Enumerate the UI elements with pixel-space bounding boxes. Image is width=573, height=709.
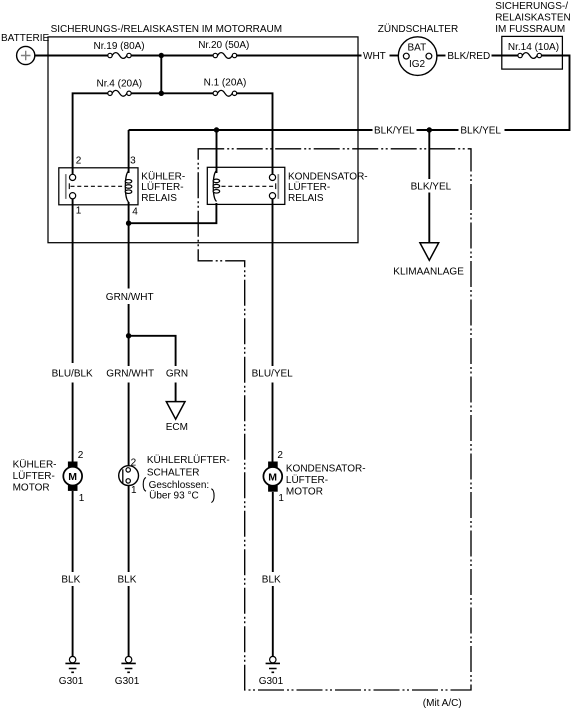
actuator dashed link <box>222 185 275 187</box>
svg-text:1: 1 <box>79 493 85 504</box>
svg-text:2: 2 <box>76 156 82 167</box>
wire motor M2 to ground <box>272 492 274 656</box>
svg-text:G301: G301 <box>259 676 284 687</box>
wire coil lead radiator relay <box>128 130 130 173</box>
svg-text:BLK/RED: BLK/RED <box>447 51 490 62</box>
svg-text:1: 1 <box>131 485 137 496</box>
contact armature <box>65 174 67 199</box>
svg-text:BLK/YEL: BLK/YEL <box>374 126 415 137</box>
svg-text:BLK/YEL: BLK/YEL <box>460 126 501 137</box>
svg-text:G301: G301 <box>115 676 140 687</box>
wire BLK/YEL branch down to KLIMAANLAGE <box>428 130 430 242</box>
svg-text:2: 2 <box>78 450 84 461</box>
svg-text:MOTOR: MOTOR <box>13 483 50 494</box>
coil L2 <box>213 171 216 202</box>
svg-text:LÜFTER-: LÜFTER- <box>141 181 183 193</box>
svg-text:Nr.20 (50A): Nr.20 (50A) <box>198 40 249 51</box>
wire coil lead condenser relay <box>216 130 218 173</box>
svg-text:BLK: BLK <box>262 574 281 585</box>
radiator fan switch KUEHLERLUEFTER-SCHALTER <box>119 454 230 502</box>
svg-text:M: M <box>268 471 277 483</box>
contact terminals <box>269 174 275 180</box>
wire motor M1 to ground <box>72 491 74 656</box>
wire fuse Nr.19 to fuse Nr.20 <box>131 55 213 57</box>
svg-text:Über 93 °C: Über 93 °C <box>149 490 199 502</box>
svg-text:LÜFTER-: LÜFTER- <box>286 474 328 486</box>
A/C option dash-dot outline <box>198 149 471 690</box>
svg-text:IG2: IG2 <box>409 59 426 70</box>
svg-text:(Mit A/C): (Mit A/C) <box>423 698 462 709</box>
fuse Nr.4 (20A) <box>97 79 143 97</box>
svg-text:Geschlossen:: Geschlossen: <box>149 480 210 491</box>
svg-text:BATTERIE: BATTERIE <box>1 33 49 44</box>
svg-text:IM FUSSRAUM: IM FUSSRAUM <box>495 24 565 35</box>
bracket left <box>143 478 146 492</box>
svg-text:GRN: GRN <box>166 369 188 380</box>
battery B1 <box>1 33 49 65</box>
wire relay1 pin4 down <box>128 202 130 223</box>
ground G301 left <box>59 656 84 687</box>
relay radiator fan KUEHLER-LUEFTER-RELAIS <box>59 156 185 218</box>
svg-text:BLU/YEL: BLU/YEL <box>252 369 294 380</box>
node junction bus bottom <box>159 91 164 96</box>
svg-text:2: 2 <box>277 450 283 461</box>
svg-text:BLK/YEL: BLK/YEL <box>411 181 452 192</box>
wire right drop to BLK/YEL row <box>505 129 571 131</box>
ignition switch ZUENDSCHALTER <box>378 23 458 76</box>
wire BLK/YEL row to relay coil <box>129 129 373 131</box>
node junction bus top <box>159 53 164 58</box>
svg-text:SICHERUNGS-/RELAISKASTEN IM MO: SICHERUNGS-/RELAISKASTEN IM MOTORRAUM <box>51 24 283 35</box>
svg-text:BLU/BLK: BLU/BLK <box>52 369 93 380</box>
fuse/relay box engine room outline <box>48 37 358 243</box>
svg-text:Nr.14 (10A): Nr.14 (10A) <box>508 42 559 53</box>
contact armature <box>277 174 279 199</box>
ground G301 right <box>259 656 284 687</box>
svg-text:ECM: ECM <box>166 422 188 433</box>
wire GRN/WHT down to switch <box>128 223 130 467</box>
wire bus vertical Nr.19 line to Nr.4 line <box>160 56 162 94</box>
node junction GRN branch <box>126 333 131 338</box>
svg-text:LÜFTER-: LÜFTER- <box>288 181 330 193</box>
svg-text:SICHERUNGS-/: SICHERUNGS-/ <box>495 1 568 12</box>
svg-text:LÜFTER-: LÜFTER- <box>13 470 55 482</box>
svg-text:G301: G301 <box>59 676 84 687</box>
node junction pin4 <box>126 221 131 226</box>
wire pin4 to condenser coil <box>129 203 217 223</box>
svg-text:Nr.19 (80A): Nr.19 (80A) <box>94 41 145 52</box>
svg-text:RELAISKASTEN: RELAISKASTEN <box>495 13 571 24</box>
wire BLK/RED to fuse box <box>492 55 519 57</box>
svg-text:Nr.4 (20A): Nr.4 (20A) <box>97 79 143 90</box>
svg-text:MOTOR: MOTOR <box>286 487 323 498</box>
svg-text:BLK: BLK <box>61 575 80 586</box>
wire BLK/YEL segment to junction <box>417 129 459 131</box>
svg-text:BAT: BAT <box>408 42 427 53</box>
bracket right <box>211 489 214 503</box>
svg-text:GRN/WHT: GRN/WHT <box>106 292 154 303</box>
svg-text:RELAIS: RELAIS <box>288 193 324 204</box>
svg-text:KLIMAANLAGE: KLIMAANLAGE <box>393 267 464 278</box>
ground G301 middle <box>115 656 140 687</box>
node junction KLIMAANLAGE branch <box>427 127 432 132</box>
svg-text:4: 4 <box>132 207 138 218</box>
actuator dashed link <box>71 185 124 187</box>
coil L1 <box>125 171 128 202</box>
ECM arrow <box>166 402 185 420</box>
condenser fan motor M2 <box>263 450 365 504</box>
svg-text:RELAIS: RELAIS <box>141 193 177 204</box>
fuse/relay box footwell outline <box>495 1 571 69</box>
svg-text:KONDENSATOR-: KONDENSATOR- <box>286 464 366 475</box>
wire Nr.4 line <box>73 93 159 174</box>
svg-text:3: 3 <box>130 156 136 167</box>
wire fuse Nr.14 out right and down <box>542 56 570 130</box>
wire N.1 line <box>164 93 273 174</box>
wire switch to ground <box>128 486 130 657</box>
svg-text:WHT: WHT <box>363 51 386 62</box>
wire ignition to BLK/RED <box>437 55 446 57</box>
contact terminals <box>70 174 76 180</box>
KLIMAANLAGE arrow <box>420 243 439 261</box>
svg-text:SCHALTER: SCHALTER <box>147 468 200 479</box>
wire WHT to ignition switch <box>390 55 399 57</box>
wire condenser contact down to motor <box>272 199 274 462</box>
svg-text:1: 1 <box>278 493 284 504</box>
fuse Nr.14 (10A) <box>508 42 559 58</box>
relay condenser fan KONDENSATOR-LUEFTER-RELAIS <box>207 167 367 204</box>
node junction condenser coil branch <box>214 127 219 132</box>
wire relay1 pin1 down to motor <box>72 199 74 462</box>
svg-text:BLK: BLK <box>118 575 137 586</box>
svg-text:ZÜNDSCHALTER: ZÜNDSCHALTER <box>378 23 458 35</box>
svg-text:KONDENSATOR-: KONDENSATOR- <box>288 171 368 182</box>
fuse Nr.19 (80A) <box>94 41 145 59</box>
svg-text:N.1 (20A): N.1 (20A) <box>204 77 247 88</box>
fuse Nr.20 (50A) <box>198 40 249 58</box>
svg-text:KÜHLER-: KÜHLER- <box>141 170 185 182</box>
wire fuse Nr.20 to WHT <box>237 55 362 57</box>
wire GRN branch to ECM <box>129 336 176 401</box>
svg-text:GRN/WHT: GRN/WHT <box>106 369 154 380</box>
wire battery to fuse Nr.19 <box>35 55 108 57</box>
svg-text:KÜHLER-: KÜHLER- <box>13 459 57 471</box>
fuse N.1 (20A) <box>204 77 247 96</box>
svg-text:M: M <box>68 471 77 483</box>
svg-text:KÜHLERLÜFTER-: KÜHLERLÜFTER- <box>147 454 230 466</box>
radiator fan motor M1 <box>13 450 85 504</box>
svg-text:1: 1 <box>76 206 82 217</box>
